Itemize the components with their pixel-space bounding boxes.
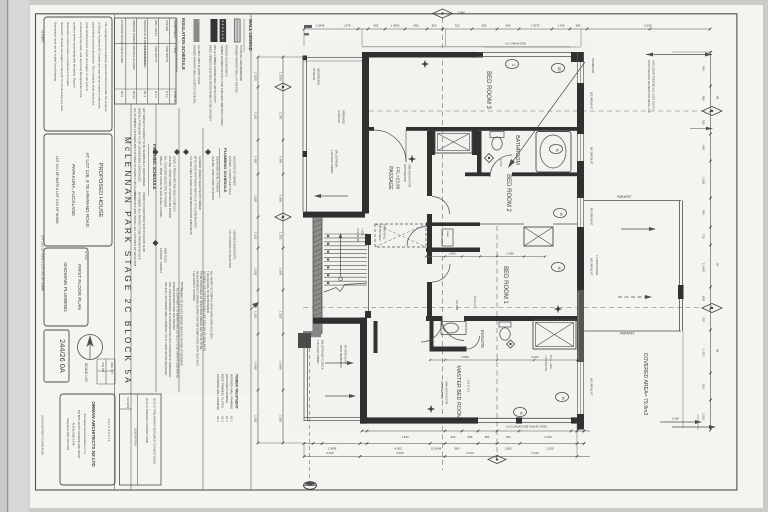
svg-text:PROPOSED HOUSE: PROPOSED HOUSE <box>97 162 103 217</box>
svg-text:commencing any work, and repor: commencing any work, and report any disc… <box>79 22 83 98</box>
svg-text:Dimensions must not be scaled: Dimensions must not be scaled from drawi… <box>54 22 58 82</box>
svg-text:965: 965 <box>702 210 706 215</box>
svg-text:SOLID CORE: SOLID CORE <box>120 46 124 63</box>
svg-text:26-10-17 BUILDING CONSENT ISS: 26-10-17 BUILDING CONSENT ISSUE <box>145 398 149 443</box>
svg-text:AT WE DR: AT WE DR <box>312 68 315 80</box>
svg-text:900: 900 <box>432 23 437 27</box>
svg-text:dimensions must be taken in pr: dimensions must be taken in preference t… <box>66 22 70 86</box>
svg-text:3.6 X 3.2: 3.6 X 3.2 <box>467 380 471 392</box>
svg-text:88: 88 <box>716 96 720 100</box>
svg-text:NO SUPPLY AND INSTALL ALL FIXT: NO SUPPLY AND INSTALL ALL FIXTURES AS SE… <box>133 192 137 266</box>
svg-text:B/S OPEN/LHT: B/S OPEN/LHT <box>590 208 593 226</box>
svg-text:1.0945: 1.0945 <box>316 23 325 27</box>
svg-text:1.060: 1.060 <box>702 177 706 185</box>
svg-text:1.060: 1.060 <box>672 417 679 421</box>
svg-text:BY SPECIALIST: BY SPECIALIST <box>344 345 348 365</box>
svg-text:dimensions. Boards and angles: dimensions. Boards and angles on site pr… <box>60 22 64 112</box>
svg-text:DATE OCT: DATE OCT <box>110 362 113 374</box>
svg-text:PINK BATTS: PINK BATTS <box>154 46 158 62</box>
svg-text:720: 720 <box>702 234 706 239</box>
svg-text:verify all dimensions, levels: verify all dimensions, levels and angles… <box>85 22 89 91</box>
svg-text:TYPE: TYPE <box>173 46 177 53</box>
svg-text:PO BOX 30 827 GREENLANE ROAD: PO BOX 30 827 GREENLANE ROAD <box>77 410 81 459</box>
svg-text:LOT 1001 DP 46875 & LOT 1002 D: LOT 1001 DP 46875 & LOT 1002 DP 369880 <box>55 156 59 224</box>
svg-text:CEILING : PAINT FINISH STOPPED: CEILING : PAINT FINISH STOPPED GIB BOARD <box>168 156 172 218</box>
svg-text:2.145: 2.145 <box>254 112 258 120</box>
svg-text:AND CLEAR TREATED LVL CANT JOI: AND CLEAR TREATED LVL CANT JOISTS <box>652 60 656 110</box>
svg-text:BED ROOM 1: BED ROOM 1 <box>502 266 508 304</box>
svg-text:GIB BOARD LEVEL 4 FINISH: GIB BOARD LEVEL 4 FINISH <box>216 156 220 192</box>
svg-text:M: M <box>519 412 523 415</box>
svg-text:595: 595 <box>468 435 473 439</box>
svg-text:885: 885 <box>702 96 706 101</box>
svg-text:1.350: 1.350 <box>279 232 283 240</box>
svg-text:FLOORS : CARPET: FLOORS : CARPET <box>159 248 163 273</box>
svg-text:SHWR WALL: SHWR WALL <box>383 224 387 240</box>
svg-text:A1 WC: A1 WC <box>499 159 502 167</box>
svg-text:R0.5: R0.5 <box>120 91 124 97</box>
svg-text:FIRST FLOOR PLAN: FIRST FLOOR PLAN <box>76 264 82 310</box>
svg-text:L=2.1/140x45 DGB 2/90x45 LINTE: L=2.1/140x45 DGB 2/90x45 LINTEL <box>506 425 548 429</box>
svg-text:AND WED SUBSTRATE: AND WED SUBSTRATE <box>233 230 237 260</box>
svg-text:OUTSIDE THE STEPPED LONG LIFE: OUTSIDE THE STEPPED LONG LIFE COLLAR OF … <box>203 271 207 351</box>
svg-text:2.120: 2.120 <box>466 451 474 455</box>
svg-text:1.5455: 1.5455 <box>702 263 706 272</box>
svg-text:TIMBER TO BE NZS GRADE UNLESS: TIMBER TO BE NZS GRADE UNLESS SHOWN OTHE… <box>180 288 184 366</box>
svg-text:1.920: 1.920 <box>279 311 283 319</box>
svg-text:1.530: 1.530 <box>401 435 409 439</box>
svg-text:DOUBLE GLAZED: DOUBLE GLAZED <box>132 46 136 69</box>
svg-text:BED ROOM 2: BED ROOM 2 <box>505 174 511 212</box>
svg-text:BALUSTRADE TO DECK: BALUSTRADE TO DECK <box>321 340 325 370</box>
svg-text:EXTERIOR WALL FRAMING: EXTERIOR WALL FRAMING <box>216 374 220 410</box>
svg-text:DECK MEMBRANE: DECK MEMBRANE <box>339 345 343 368</box>
svg-text:of Orman Architects NZ Limited: of Orman Architects NZ Limited and may n… <box>98 22 102 109</box>
svg-text:SHT NO: SHT NO <box>84 251 87 260</box>
svg-text:TIMBER FRAMED 190 X45 AT 600 C: TIMBER FRAMED 190 X45 AT 600 CRS AND LIN… <box>220 45 224 126</box>
svg-text:TO BE PROVIDED. A1 SPECIFIED S: TO BE PROVIDED. A1 SPECIFIED SMOKE DET P… <box>199 271 203 350</box>
svg-text:SD: SD <box>557 67 561 72</box>
svg-text:DOUBLE GLAZED UNITS: DOUBLE GLAZED UNITS <box>225 45 229 77</box>
svg-text:ALL FIXTURES AS SELECTED: ALL FIXTURES AS SELECTED <box>228 230 232 268</box>
svg-text:R0.26: R0.26 <box>132 91 136 99</box>
svg-text:SPREAKER: SPREAKER <box>342 110 345 124</box>
svg-text:2.300: 2.300 <box>254 415 258 423</box>
svg-text:HOTSMACTED: HOTSMACTED <box>440 381 444 399</box>
svg-text:A R C H I T E C T S: A R C H I T E C T S <box>107 419 111 442</box>
svg-text:used without express permissio: used without express permission. The con… <box>91 22 95 105</box>
svg-text:905: 905 <box>374 23 379 27</box>
svg-text:COMPONENT: COMPONENT <box>173 20 177 38</box>
svg-text:790: 790 <box>506 435 511 439</box>
svg-text:1.0660: 1.0660 <box>448 253 456 256</box>
svg-text:= 2520: = 2520 <box>361 228 365 237</box>
svg-text:88: 88 <box>716 349 720 353</box>
svg-text:DBL GL TIMBER FRAMED WALL WITH: DBL GL TIMBER FRAMED WALL WITH CAVITY <box>213 45 217 103</box>
svg-text:4.005: 4.005 <box>394 447 402 451</box>
svg-text:WALL INFILL: WALL INFILL <box>154 20 158 37</box>
svg-text:H1.2: H1.2 <box>225 416 229 422</box>
svg-text:2.1460: 2.1460 <box>506 253 514 256</box>
svg-text:WINDOW JOINERY: WINDOW JOINERY <box>132 20 136 45</box>
svg-text:755: 755 <box>702 317 706 322</box>
svg-text:L=0.9/40x45 DGB: L=0.9/40x45 DGB <box>595 255 598 275</box>
svg-text:DRN MW: DRN MW <box>101 362 104 373</box>
svg-text:H1.2: H1.2 <box>216 416 220 422</box>
svg-text:architect before proceeding wi: architect before proceeding with the wor… <box>73 22 77 88</box>
svg-text:1.245: 1.245 <box>557 23 565 27</box>
svg-text:HOT WATER CYLINDER TO BE SEISM: HOT WATER CYLINDER TO BE SEISMICALLY RES… <box>142 108 146 186</box>
svg-text:AUCKLAND 1346: AUCKLAND 1346 <box>72 423 76 446</box>
svg-text:WALLS : PAINT FINISH TO GIB LE: WALLS : PAINT FINISH TO GIB LEVEL 4 FINI… <box>159 156 163 217</box>
svg-text:BED ROOM 3: BED ROOM 3 <box>485 71 491 109</box>
svg-text:PARAPET: PARAPET <box>620 332 635 336</box>
svg-text:BALUSTRADE: BALUSTRADE <box>335 150 339 168</box>
svg-text:1.920: 1.920 <box>254 311 258 319</box>
svg-text:M: M <box>559 213 563 216</box>
svg-text:1.585: 1.585 <box>504 447 512 451</box>
svg-text:R1.3: R1.3 <box>143 91 147 97</box>
svg-text:FLOORS : CARPET AND TILES: FLOORS : CARPET AND TILES <box>228 156 232 195</box>
svg-text:3.0115: 3.0115 <box>531 356 539 359</box>
svg-text:PINK BATTS: PINK BATTS <box>165 46 169 62</box>
svg-text:2.145: 2.145 <box>279 112 283 120</box>
svg-text:NO DATE: NO DATE <box>126 397 130 409</box>
svg-text:THE CEILING TO BE PROVIDED: THE CEILING TO BE PROVIDED <box>206 271 210 313</box>
svg-text:NO INSULATION: NO INSULATION <box>143 46 147 68</box>
svg-text:PRIOR TO CONSTRUCTION OF FLOOR: PRIOR TO CONSTRUCTION OF FLOOR SLAB <box>142 192 146 252</box>
svg-text:ENCLOSED FRAMING: ENCLOSED FRAMING <box>225 374 229 403</box>
svg-text:1.3070: 1.3070 <box>254 72 258 81</box>
svg-text:ALL WORK TO COMPLY WITH NZBC A: ALL WORK TO COMPLY WITH NZBC AND NZS 360… <box>210 271 214 339</box>
svg-text:5.940: 5.940 <box>458 11 465 15</box>
svg-text:B/S OPEN/LHT: B/S OPEN/LHT <box>590 92 593 110</box>
svg-text:SELECTED BY OWNER: SELECTED BY OWNER <box>233 156 237 186</box>
svg-text:2.105: 2.105 <box>546 447 554 451</box>
svg-text:AT LOT 126, 9 TE APARANO ROAD: AT LOT 126, 9 TE APARANO ROAD <box>85 153 90 228</box>
svg-text:BY OWNER. ALL WASTES TO BE PRO: BY OWNER. ALL WASTES TO BE PROVEN ON SIT… <box>138 192 142 260</box>
svg-text:MASTER BED ROOM: MASTER BED ROOM <box>455 365 461 419</box>
svg-text:and www.ormanarchitects.co.nz: and www.ormanarchitects.co.nz <box>83 414 87 455</box>
svg-text:L=1.7/40x45 DGB: L=1.7/40x45 DGB <box>505 42 526 46</box>
svg-text:WITH TILED UPSTANDS AND FALLS: WITH TILED UPSTANDS AND FALLS TO FLOOR W… <box>194 156 198 228</box>
svg-text:LHD/RHA BB: LHD/RHA BB <box>591 58 594 73</box>
svg-text:NEW BREAKR: NEW BREAKR <box>317 68 320 85</box>
svg-text:WALL LEGEND: WALL LEGEND <box>248 19 253 51</box>
svg-text:PARAPET: PARAPET <box>617 195 632 199</box>
svg-text:TIMBER TREATMENT:: TIMBER TREATMENT: <box>235 374 239 410</box>
svg-text:B/S OPEN/LHT: B/S OPEN/LHT <box>590 258 593 276</box>
svg-text:BRICK VENEER 230 W INCL 90X45: BRICK VENEER 230 W INCL 90X45 FRAME AT 6… <box>209 45 213 121</box>
svg-text:2.0680: 2.0680 <box>461 356 469 359</box>
svg-text:INSULATION SCHEDULE: INSULATION SCHEDULE <box>181 18 186 70</box>
svg-text:835: 835 <box>482 23 487 27</box>
svg-text:1.805: 1.805 <box>254 268 258 276</box>
svg-text:960: 960 <box>506 23 511 27</box>
svg-text:FRAMED PARAPET WALL AT 400 CRS: FRAMED PARAPET WALL AT 400 CRS <box>235 45 239 93</box>
svg-text:The copyright to these drawing: The copyright to these drawings and part… <box>104 22 108 112</box>
svg-text:1.880: 1.880 <box>279 195 283 203</box>
svg-text:CEILING : PAINT FINISH STOPPED: CEILING : PAINT FINISH STOPPED <box>211 156 215 200</box>
svg-text:1.470: 1.470 <box>702 349 706 357</box>
svg-text:2.105: 2.105 <box>544 435 552 439</box>
svg-text:McLENNAN PARK STAGE 2C BLOCK 5: McLENNAN PARK STAGE 2C BLOCK 5A <box>123 137 132 386</box>
svg-text:1.0m HIGH TIMBER: 1.0m HIGH TIMBER <box>316 340 320 364</box>
svg-text:SCALE 1:50: SCALE 1:50 <box>84 363 88 382</box>
svg-text:2.4365: 2.4365 <box>279 361 283 370</box>
svg-text:540: 540 <box>702 66 706 71</box>
svg-text:R VALUE: R VALUE <box>173 91 177 103</box>
svg-text:SMK ALRM SYSTM: SMK ALRM SYSTM <box>408 164 412 187</box>
svg-text:PLUMBING SCHEDULE: PLUMBING SCHEDULE <box>223 148 228 193</box>
svg-text:SHOWER LININGS SELECTED BY OWN: SHOWER LININGS SELECTED BY OWNER <box>198 156 202 210</box>
svg-text:ROOF PARAPET FRAMED FOR METAL: ROOF PARAPET FRAMED FOR METAL CAP <box>647 60 651 113</box>
svg-text:1.350: 1.350 <box>254 232 258 240</box>
svg-text:BATHROOM: BATHROOM <box>514 135 520 165</box>
svg-text:1.3070: 1.3070 <box>279 72 283 81</box>
svg-text:WD 1008: WD 1008 <box>455 300 458 311</box>
svg-text:ORMAN ARCHITECTS NZ LTD: ORMAN ARCHITECTS NZ LTD <box>91 401 96 467</box>
svg-text:3.240: 3.240 <box>531 451 539 455</box>
svg-text:B/S OPEN/LHT: B/S OPEN/LHT <box>590 147 593 165</box>
svg-text:3.465: 3.465 <box>396 451 404 455</box>
svg-text:SPECIFICATIONS AND THE REPORT: SPECIFICATIONS AND THE REPORT <box>172 282 176 331</box>
svg-text:244/26 0A: 244/26 0A <box>58 339 67 373</box>
svg-text:R 3.2: R 3.2 <box>165 91 169 98</box>
svg-text:SMK ALRM SYSTM: SMK ALRM SYSTM <box>445 381 449 404</box>
svg-text:10.5948: 10.5948 <box>431 447 442 451</box>
svg-text:14 R @ 180: 14 R @ 180 <box>356 228 360 242</box>
svg-text:1.805: 1.805 <box>279 268 283 276</box>
svg-text:720: 720 <box>455 23 460 27</box>
svg-text:ALL COLOURS SELECTED BY OWNER: ALL COLOURS SELECTED BY OWNER <box>164 156 168 207</box>
svg-text:ALL WET AREA FLOORS TILED ON W: ALL WET AREA FLOORS TILED ON WEDI BOARD … <box>189 156 193 235</box>
svg-text:620: 620 <box>451 435 456 439</box>
svg-text:FRAMED PARAPET WALL AS DETS TO: FRAMED PARAPET WALL AS DETS TO DETAIL <box>193 45 197 104</box>
svg-text:ENSUITE: ENSUITE <box>480 330 485 348</box>
svg-text:ROOF FRAMING, PLATES: ROOF FRAMING, PLATES <box>221 374 225 408</box>
svg-text:2.325: 2.325 <box>326 451 334 455</box>
svg-text:1.880: 1.880 <box>254 195 258 203</box>
svg-text:1.875: 1.875 <box>343 23 351 27</box>
svg-text:SHOWING PLUMBING: SHOWING PLUMBING <box>62 262 68 312</box>
svg-text:R 2.2: R 2.2 <box>154 91 158 98</box>
svg-text:PAPAKURA, AUCKLAND: PAPAKURA, AUCKLAND <box>71 164 76 216</box>
svg-text:NO 360 DEEP: NO 360 DEEP <box>378 224 382 241</box>
svg-text:L SHAPED WR: L SHAPED WR <box>544 355 547 372</box>
svg-text:244/26 0A FIRST FLOOR PLAN: 244/26 0A FIRST FLOOR PLAN <box>41 415 45 455</box>
svg-text:925: 925 <box>702 384 706 389</box>
svg-text:5.920: 5.920 <box>644 23 652 27</box>
svg-text:2.300: 2.300 <box>279 415 283 423</box>
svg-text:AND ALL PIPEWORK TO BE LAGGED: AND ALL PIPEWORK TO BE LAGGED AND CONCEA… <box>138 108 142 181</box>
svg-text:960: 960 <box>702 145 706 150</box>
svg-text:H1.2: H1.2 <box>221 416 225 422</box>
svg-text:COVERED AREA= 79.9m2: COVERED AREA= 79.9m2 <box>642 353 648 416</box>
svg-text:1.485: 1.485 <box>254 156 258 164</box>
svg-text:CANE: CANE <box>446 231 449 238</box>
svg-text:TO DETAIL AND MEMBRANE: TO DETAIL AND MEMBRANE <box>239 45 243 81</box>
svg-text:HOLD ALL EXTERIOR WALL FRAMING: HOLD ALL EXTERIOR WALL FRAMING TO H1.2 A… <box>164 282 168 375</box>
svg-text:EXTERIOR DOORS: EXTERIOR DOORS <box>120 20 124 45</box>
svg-text:M: M <box>557 267 561 270</box>
svg-text:980: 980 <box>455 447 460 451</box>
svg-text:H1.2: H1.2 <box>230 416 234 422</box>
svg-text:1.0908: 1.0908 <box>328 447 337 451</box>
svg-text:AV WD M: AV WD M <box>473 296 476 306</box>
svg-text:1.3075: 1.3075 <box>531 23 540 27</box>
svg-text:M: M <box>561 397 565 400</box>
svg-text:1.010: 1.010 <box>702 413 706 421</box>
svg-text:HOTSMACTED: HOTSMACTED <box>403 164 407 182</box>
svg-text:SHLF + RAIL: SHLF + RAIL <box>549 355 552 370</box>
svg-text:ALL WET AREA FLOORS TILED: ALL WET AREA FLOORS TILED <box>197 45 201 84</box>
svg-text:AH RD WN: AH RD WN <box>337 110 340 123</box>
svg-text:Telephone (09) 525 5443: Telephone (09) 525 5443 <box>66 418 70 451</box>
svg-text:M: M <box>555 149 559 152</box>
svg-text:REQUIREMENTS SMOKE ALARM SYSTE: REQUIREMENTS SMOKE ALARM SYSTEM COMPLYIN… <box>196 271 200 366</box>
svg-text:985: 985 <box>576 23 581 27</box>
svg-text:555: 555 <box>702 120 706 125</box>
svg-text:GIB. THESE DRAWING IN CONJUNCT: GIB. THESE DRAWING IN CONJUNCTION WITH C… <box>168 282 172 378</box>
svg-text:FFL=23.90: FFL=23.90 <box>396 167 401 190</box>
svg-text:ALL PLUMBING FIXTURES AND FITT: ALL PLUMBING FIXTURES AND FITTINGS TO CO… <box>133 108 137 200</box>
svg-text:THE SAFETY SYSTEM: THE SAFETY SYSTEM <box>192 271 196 301</box>
svg-text:680: 680 <box>485 435 490 439</box>
svg-text:965: 965 <box>414 23 419 27</box>
svg-text:55: 55 <box>716 263 720 267</box>
svg-text:800: 800 <box>702 296 706 301</box>
svg-text:26-10-17 PRELIMINARY RESOURCE: 26-10-17 PRELIMINARY RESOURCE CONSENT IS… <box>153 398 157 464</box>
svg-text:1.4820: 1.4820 <box>391 23 400 27</box>
svg-text:DESCRIPTION: DESCRIPTION <box>134 428 138 446</box>
svg-text:PASSAGE: PASSAGE <box>387 166 393 190</box>
svg-text:1.0m HIGH TIMBER: 1.0m HIGH TIMBER <box>330 150 334 174</box>
svg-text:LEVEL 4 FINISH MELTEK SEAL F3.: LEVEL 4 FINISH MELTEK SEAL F3.5M CLG <box>173 156 177 212</box>
svg-text:2.4365: 2.4365 <box>254 361 258 370</box>
svg-text:1.485: 1.485 <box>279 156 283 164</box>
svg-text:CEILING: CEILING <box>165 20 169 31</box>
svg-text:AND TILES: AND TILES <box>164 248 168 263</box>
svg-text:INTERIOR WALL FRAMING: INTERIOR WALL FRAMING <box>230 374 234 409</box>
svg-text:B/S OPEN/LHT: B/S OPEN/LHT <box>590 378 593 396</box>
